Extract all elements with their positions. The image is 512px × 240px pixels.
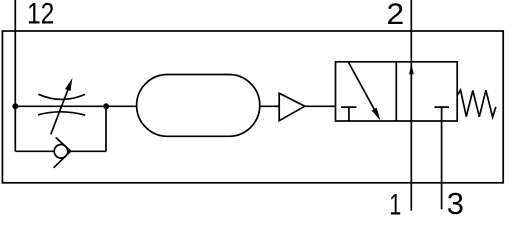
svg-text:1: 1 [389,187,401,215]
svg-text:12: 12 [27,0,54,30]
svg-text:2: 2 [387,0,405,31]
svg-text:3: 3 [447,186,464,215]
